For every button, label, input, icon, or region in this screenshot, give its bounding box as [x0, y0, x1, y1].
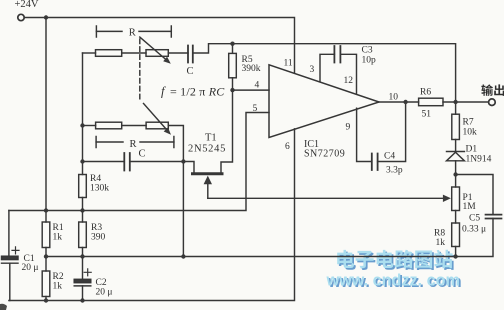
resistor R2	[42, 271, 50, 297]
arrow variable row1	[140, 37, 171, 64]
svg-text:11: 11	[284, 59, 293, 69]
watermark line1 电子电路图站	[337, 250, 452, 269]
wire row1 to C	[168, 52, 188, 54]
resistor R6	[419, 98, 443, 106]
svg-text:www. cndzz. com: www. cndzz. com	[326, 272, 460, 290]
svg-text:R6: R6	[420, 88, 431, 98]
node bias line left	[44, 208, 48, 212]
node bias line R4R3	[80, 208, 84, 212]
svg-text:R3: R3	[91, 223, 102, 233]
svg-text:SN72709: SN72709	[304, 149, 345, 160]
node bottom R2	[44, 298, 48, 302]
wire +24V rail to pin 11	[24, 18, 294, 74]
svg-text:6: 6	[285, 142, 290, 152]
svg-text:C2: C2	[96, 278, 107, 288]
wire twin-T junction to mid rail	[182, 162, 184, 257]
resistor R1	[42, 222, 50, 248]
svg-text:R2: R2	[53, 272, 64, 282]
node C5 branch	[453, 172, 457, 176]
node output C4	[403, 100, 407, 104]
wire row2 right to row3	[168, 126, 183, 162]
wire D1 to P1	[455, 161, 457, 187]
svg-text:10: 10	[389, 93, 399, 103]
svg-text:51: 51	[422, 110, 432, 120]
node row3 left	[80, 159, 84, 163]
svg-text:C: C	[187, 66, 194, 77]
svg-text:130k: 130k	[90, 184, 109, 194]
svg-text:0.33 μ: 0.33 μ	[462, 225, 486, 235]
wire row2 left lead	[83, 125, 96, 127]
svg-text:390k: 390k	[242, 64, 261, 74]
dashed gang line	[139, 39, 141, 100]
svg-text:C5: C5	[469, 214, 480, 224]
resistor R fixed row1	[96, 50, 122, 57]
wire bias line to pin 5	[9, 113, 269, 211]
resistor R variable row2	[146, 122, 168, 129]
svg-text:C3: C3	[362, 46, 373, 56]
svg-text:D1: D1	[466, 145, 478, 155]
svg-text:R8: R8	[434, 229, 445, 239]
wire mid rail	[46, 256, 456, 258]
svg-text:+24V: +24V	[15, 0, 39, 10]
potentiometer P1	[452, 187, 460, 211]
resistor R8	[452, 223, 460, 247]
capacitor C3	[334, 46, 340, 63]
svg-text:R4: R4	[90, 174, 101, 184]
svg-text:R: R	[129, 28, 136, 39]
capacitor C1	[2, 247, 20, 301]
wire R7 top	[455, 102, 457, 114]
wire pin 3 C3 pin 12 loop	[320, 54, 357, 93]
svg-text:R: R	[130, 139, 137, 150]
watermark line1 shadow	[339, 251, 454, 270]
wire row1 left lead	[83, 52, 96, 54]
resistor R7	[452, 114, 460, 139]
node mid rail R3C2	[80, 254, 84, 258]
op-amp U1 triangle	[269, 65, 379, 138]
svg-text:1k: 1k	[53, 282, 63, 292]
svg-text:20 μ: 20 μ	[22, 263, 39, 273]
resistor R3	[79, 222, 87, 248]
svg-text:1k: 1k	[436, 238, 446, 248]
node supply tap	[44, 15, 48, 19]
svg-text:10p: 10p	[362, 56, 377, 66]
svg-text:12: 12	[344, 76, 354, 86]
svg-text:R1: R1	[53, 223, 64, 233]
capacitor C row1	[188, 46, 193, 63]
resistor R fixed row2	[96, 122, 122, 129]
capacitor C5	[486, 215, 502, 219]
wire bottom rail to pin 6	[9, 129, 295, 301]
svg-text:C4: C4	[384, 152, 395, 162]
node row3 junction	[181, 159, 185, 163]
arrowhead P1 wiper	[443, 195, 451, 202]
svg-text:10k: 10k	[463, 128, 478, 138]
svg-text:390: 390	[91, 233, 106, 243]
wire row2 mid lead	[122, 125, 146, 127]
svg-text:2N5245: 2N5245	[188, 144, 226, 155]
wire R3 to C2	[82, 248, 84, 280]
node pin4 R5	[230, 88, 234, 92]
svg-text:20 μ: 20 μ	[96, 288, 113, 298]
svg-text:9: 9	[346, 123, 351, 133]
node bottom C2	[80, 298, 84, 302]
svg-text:3.3p: 3.3p	[386, 166, 403, 176]
svg-text:C: C	[139, 148, 146, 159]
wire row1 mid lead	[122, 52, 146, 54]
resistor R5	[229, 44, 237, 90]
bracket R row1	[96, 26, 171, 37]
wire R4 to R3	[82, 198, 84, 223]
svg-text:3: 3	[310, 65, 315, 75]
wire R6 to output terminal	[443, 101, 489, 103]
watermark line2 shadow	[326, 272, 462, 292]
capacitor C2	[74, 269, 91, 301]
wire R8 to mid rail	[455, 247, 457, 257]
wire row3 left	[83, 161, 125, 163]
svg-text:1N914: 1N914	[466, 155, 492, 165]
wire output to R6	[379, 101, 419, 103]
node mid rail twin-T	[181, 254, 185, 258]
label output 输出	[481, 84, 504, 96]
transistor T1 2N5245	[183, 162, 222, 199]
capacitor C4	[372, 154, 378, 171]
svg-text:1k: 1k	[53, 233, 63, 243]
node output R7	[453, 100, 457, 104]
node mid rail R8	[453, 254, 457, 258]
node row2 left	[80, 123, 84, 127]
wire P1 to R8	[455, 211, 457, 224]
wire C5 branch	[456, 175, 493, 257]
wire R1 to R2	[45, 248, 47, 272]
wire supply vertical to R1	[45, 18, 47, 223]
svg-text:1M: 1M	[463, 202, 477, 212]
arrow variable row2	[144, 104, 172, 135]
wire drain to R5 node	[221, 90, 233, 172]
terminal output	[489, 99, 496, 106]
wire row3 right	[130, 161, 184, 163]
wire pin 4	[233, 89, 270, 91]
wire gate to P1 wiper	[208, 197, 444, 199]
svg-text:T1: T1	[205, 133, 217, 144]
svg-text:= 1/2 π RC: = 1/2 π RC	[170, 85, 225, 99]
capacitor C row3	[124, 153, 130, 171]
terminal +24V	[18, 14, 24, 20]
resistor R4	[79, 175, 87, 198]
wire twin-T left column	[82, 53, 84, 175]
svg-text:R7: R7	[463, 118, 474, 128]
resistor R variable row1	[146, 50, 168, 57]
diode D1	[447, 152, 465, 161]
smudge bottom-left corner	[0, 304, 7, 310]
node mid rail R1R2	[44, 254, 48, 258]
svg-text:5: 5	[253, 104, 258, 114]
wire R7 to D1	[455, 140, 457, 152]
svg-text:4: 4	[255, 81, 260, 91]
bracket R row2	[96, 137, 174, 148]
node R5 top	[230, 42, 234, 46]
wire C1 branch down	[8, 211, 10, 257]
wire pin 9 to C4	[357, 108, 372, 161]
wire C4 to output node	[378, 102, 406, 162]
wire C row1 to top line and right column	[193, 44, 456, 102]
wire R2 to bottom rail	[45, 297, 47, 301]
